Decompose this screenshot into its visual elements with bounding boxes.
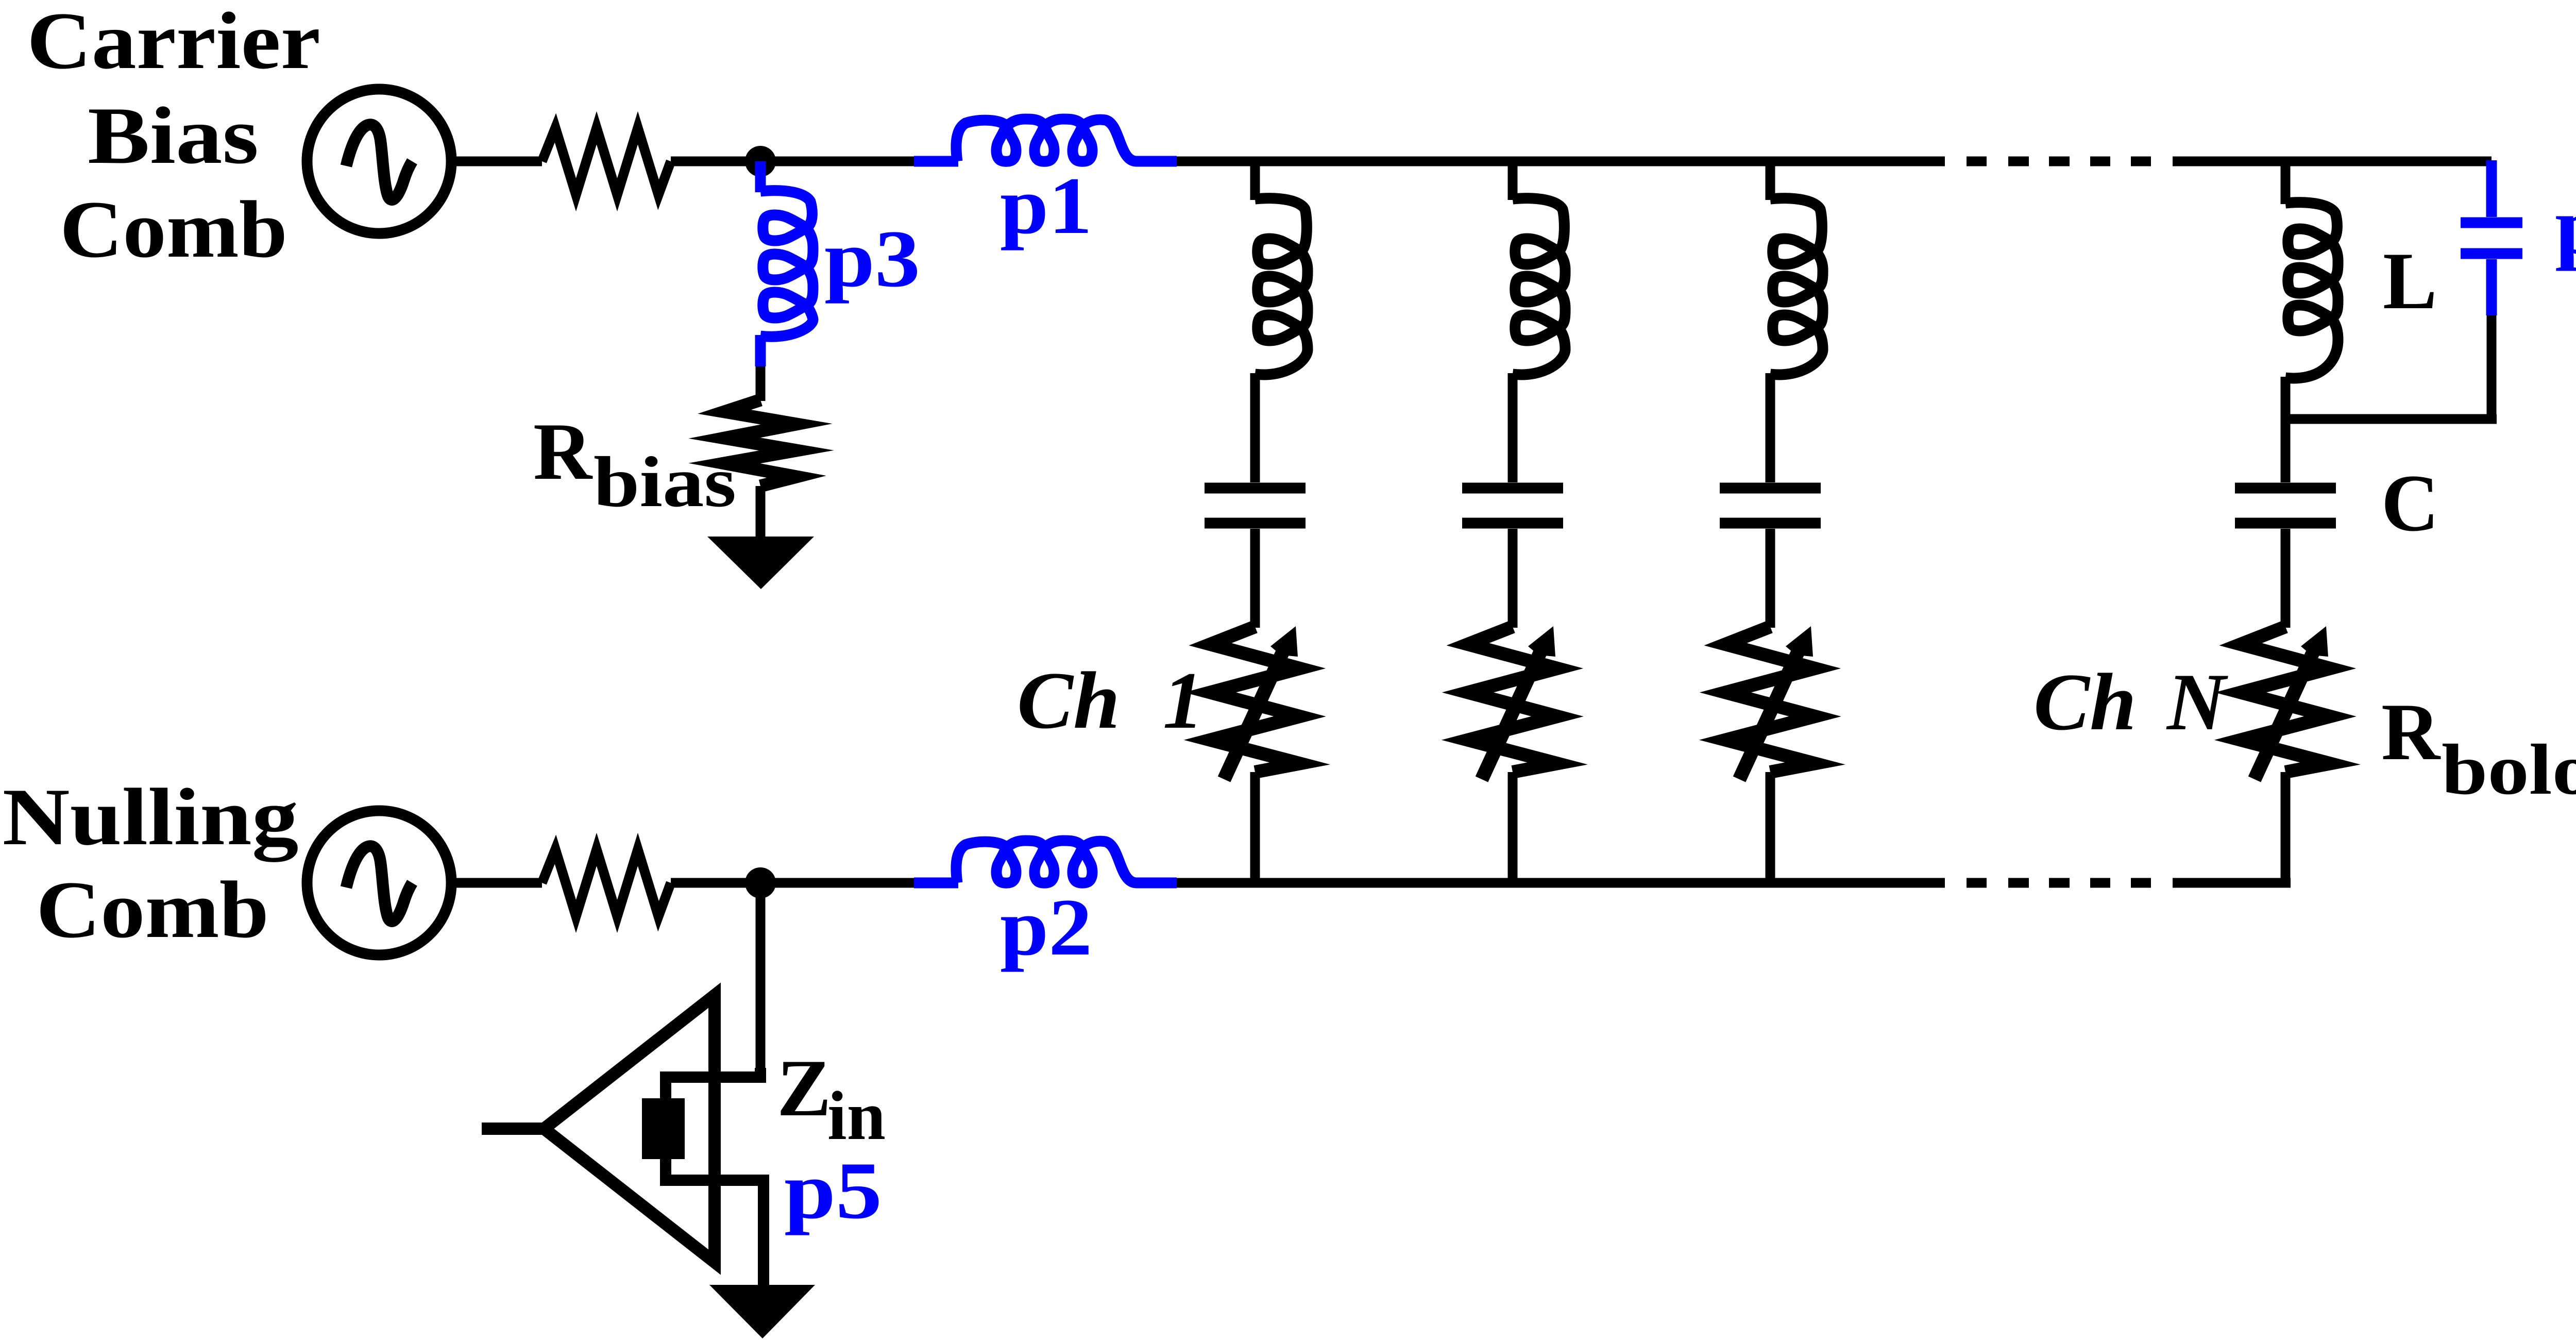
svg-text:1: 1 [1163,656,1204,746]
svg-text:Bias: Bias [88,91,259,181]
wire branch 1 top [1250,161,1260,200]
wire [756,366,766,401]
svg-text:R: R [2381,687,2441,777]
svg-text:N: N [2166,657,2228,747]
svg-text:p3: p3 [824,214,920,304]
wire [451,878,542,888]
wire [1508,772,1518,883]
wire p4 lower lead [2487,315,2497,419]
inductor branch 3 [1770,198,1823,375]
wire [1766,529,1775,628]
wire branch 2 top [1508,161,1518,200]
variable resistor Ch 2 (bolometer) [1468,627,1557,772]
wire [2281,529,2291,628]
wire top rail [1177,157,1945,166]
capacitor branch 3 [1720,488,1821,523]
wire top rail right [2173,157,2492,166]
node B (nulling node) [745,867,776,898]
source V2 (Nulling Comb) [307,811,451,955]
wire [1766,373,1775,482]
wire bottom rail dashed [1967,878,2151,888]
svg-text:Z: Z [777,1043,831,1133]
capacitor C [2235,488,2336,523]
wire branch 3 top [1766,161,1775,200]
wire node to amplifier [756,883,766,1071]
wire [671,157,914,166]
wire bottom rail [1177,878,1945,888]
svg-text:Ch: Ch [2033,657,2137,747]
wire [1508,529,1518,628]
wire [1508,373,1518,482]
inductor L [2285,203,2338,378]
label Ch 1 [1017,656,1204,746]
wire [1250,373,1260,482]
label Zin [777,1043,886,1154]
wire [756,486,766,541]
svg-text:C: C [2381,458,2439,548]
variable resistor Ch 1 (bolometer) [1210,627,1300,772]
op-amp U1 (SQUID readout, Zin/p5) [544,995,715,1262]
svg-text:p5: p5 [784,1146,882,1236]
wire [2281,377,2291,424]
wire [1250,772,1260,883]
svg-text:Carrier: Carrier [27,0,320,86]
svg-text:L: L [2383,236,2437,326]
inductor branch 1 [1255,198,1308,375]
wire [2281,772,2291,883]
svg-text:p4: p4 [2555,181,2576,272]
wire L/p4 junction [2285,414,2497,424]
source V1 (Carrier Bias Comb) [307,89,451,233]
svg-text:bias: bias [594,442,736,522]
wire top rail dashed [1967,157,2151,166]
svg-text:R: R [533,407,593,497]
wire branch N top [2281,161,2291,204]
label Nulling Comb [3,772,299,955]
svg-text:Nulling: Nulling [3,772,299,862]
label Rbolo [2381,687,2576,810]
wire [1250,529,1260,628]
svg-text:p1: p1 [1000,161,1092,251]
svg-text:Comb: Comb [36,865,269,955]
resistor R (carrier source) [542,128,671,195]
inductor p3 [760,161,813,366]
capacitor p4 [2461,160,2522,315]
inductor p1 [914,119,1177,161]
capacitor branch 1 [1205,488,1306,523]
ground (Rbias) [707,537,814,589]
inductor branch 2 [1513,198,1565,375]
svg-text:in: in [827,1078,886,1154]
wire [2281,419,2291,482]
label Ch N [2033,657,2228,747]
capacitor branch 2 [1462,488,1563,523]
variable resistor Ch 3 (bolometer) [1725,627,1815,772]
label Rbias [533,407,736,522]
inductor p2 [914,841,1177,883]
svg-text:Ch: Ch [1017,656,1120,746]
label Carrier Bias Comb [27,0,320,275]
svg-text:Comb: Comb [60,185,287,275]
resistor R (nulling source) [542,849,671,916]
wire bottom rail right [2173,878,2291,888]
variable resistor Ch N (R bolo) [2241,627,2330,772]
wire [671,878,914,888]
svg-text:bolo: bolo [2442,730,2576,810]
resistor Rbias [724,400,796,486]
wire [1766,772,1775,883]
ground (amplifier) [709,1285,815,1338]
svg-text:p2: p2 [1000,882,1092,973]
node A (carrier node) [745,146,776,177]
wire [451,157,542,166]
